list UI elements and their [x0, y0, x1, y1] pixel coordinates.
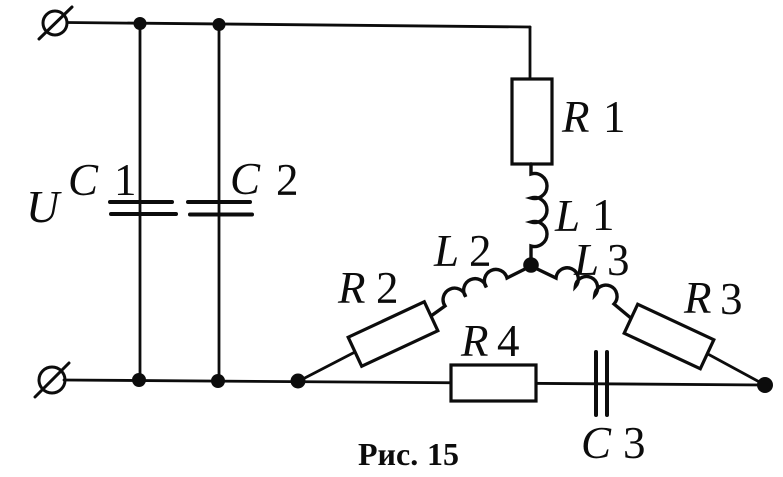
- svg-text:1: 1: [114, 155, 137, 205]
- label L2: [433, 226, 492, 276]
- svg-text:3: 3: [623, 418, 646, 468]
- capacitor C1: [110, 202, 176, 214]
- terminal bottom-left: [35, 363, 69, 397]
- svg-text:1: 1: [592, 190, 615, 240]
- wire top horizontal: [67, 23, 530, 28]
- svg-text:L: L: [573, 235, 599, 285]
- capacitor C2: [188, 202, 252, 215]
- caption Рис. 15: [358, 436, 459, 472]
- inductor L2: [431, 266, 531, 316]
- svg-text:R: R: [337, 263, 366, 313]
- svg-text:U: U: [26, 181, 62, 232]
- wire branch C1 vertical: [139, 23, 142, 380]
- svg-text:C: C: [230, 154, 261, 204]
- svg-text:C: C: [581, 418, 612, 468]
- label R4: [460, 316, 520, 366]
- svg-text:Рис.: Рис.: [358, 436, 418, 472]
- svg-text:4: 4: [497, 316, 520, 366]
- label C2: [230, 154, 299, 205]
- junction dot top A: [134, 17, 147, 30]
- junction dot bottom right: [757, 377, 773, 393]
- label C1: [68, 155, 137, 205]
- junction dot bottom A: [132, 373, 146, 387]
- inductor L1: [531, 164, 547, 265]
- resistor R2: [299, 302, 438, 381]
- wire bottom horizontal: [64, 380, 765, 385]
- label R1: [561, 92, 626, 142]
- label L1: [554, 190, 615, 241]
- svg-text:1: 1: [603, 92, 626, 142]
- svg-text:2: 2: [376, 263, 399, 313]
- svg-text:R: R: [460, 316, 489, 366]
- inductor L3: [531, 266, 632, 319]
- node center star point: [523, 257, 539, 273]
- label C3: [581, 418, 646, 468]
- junction dot top B: [213, 18, 226, 31]
- svg-text:2: 2: [276, 155, 299, 205]
- label R3: [683, 273, 743, 324]
- svg-text:R: R: [683, 273, 712, 323]
- svg-text:3: 3: [607, 235, 630, 285]
- svg-text:L: L: [554, 191, 580, 241]
- junction dot bottom C: [291, 374, 306, 389]
- wire branch C2 vertical: [218, 24, 221, 381]
- svg-text:L: L: [433, 226, 459, 276]
- terminal top-left: [39, 7, 72, 39]
- label R2: [337, 263, 399, 313]
- junction dot bottom B: [211, 374, 225, 388]
- resistor R1: [512, 79, 552, 164]
- svg-text:15: 15: [427, 436, 459, 472]
- capacitor C3: [596, 352, 607, 415]
- svg-text:3: 3: [720, 274, 743, 324]
- resistor R4: [451, 365, 536, 401]
- label L3: [573, 235, 630, 285]
- svg-text:C: C: [68, 155, 99, 205]
- resistor R3: [624, 304, 765, 385]
- svg-text:R: R: [561, 92, 590, 142]
- svg-text:2: 2: [469, 226, 492, 276]
- wire top-right vertical to R1: [529, 27, 532, 79]
